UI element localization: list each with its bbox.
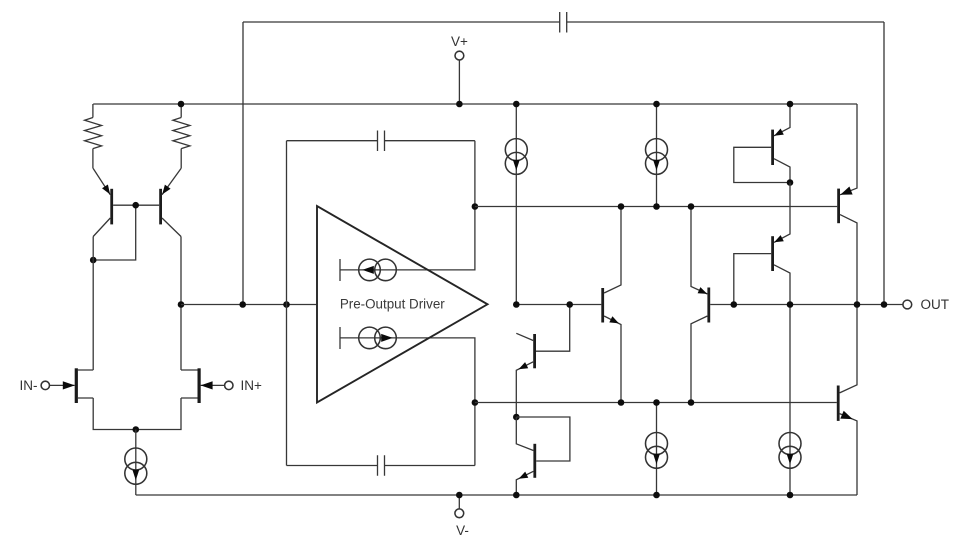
capacitor C1 (top compensation): [243, 12, 884, 33]
transistor Q1 (PNP current-mirror, diode-connected): [93, 169, 112, 237]
node left rail junction: [90, 257, 97, 264]
capacitor C3 (box bottom): [287, 455, 475, 476]
svg-text:V-: V-: [456, 523, 469, 538]
node Q7 collector tap: [618, 203, 625, 210]
current source I3 (lower, in driver): [340, 327, 396, 349]
transistor Q8 (PNP driver): [691, 207, 709, 403]
wire right rail: [180, 237, 182, 371]
node V+ terminal: [455, 51, 464, 104]
wire upper node row: [475, 206, 837, 208]
transistor Q11 (PNP output, upper): [839, 104, 857, 305]
transistor J1 (input JFET, IN-): [50, 368, 94, 403]
current source I7 (lower right): [779, 305, 801, 496]
resistor R1: [85, 104, 102, 169]
transistor Q12 (NPN output, lower): [838, 305, 857, 496]
svg-text:IN+: IN+: [241, 378, 263, 393]
current source I4 (upper left): [505, 104, 527, 305]
current source I5 (upper middle): [646, 104, 668, 207]
wire Q1-Q2 base tie: [113, 204, 159, 206]
wire lower node row: [475, 402, 837, 404]
wire left rail: [92, 237, 94, 371]
transistor Q9 (PNP diode, upper right): [734, 104, 790, 183]
node Q9 bus tap: [787, 101, 794, 108]
node I5 bus tap: [653, 101, 660, 108]
wire output node row: [710, 304, 903, 306]
node tail junction: [133, 426, 140, 433]
node Q8 collector tap: [688, 399, 695, 406]
node OUT terminal: [903, 300, 912, 309]
node V- stub tap: [456, 492, 463, 499]
transistor Q10 (PNP diode): [734, 183, 790, 305]
wire bias link row: [516, 304, 601, 306]
wire driver box right lower: [340, 338, 475, 466]
node compensation OUT tap: [881, 301, 888, 308]
wire C1 right leg down to OUT node: [883, 22, 885, 305]
node base link junction: [132, 202, 139, 209]
svg-text:IN-: IN-: [20, 378, 38, 393]
node Q5 base tap: [566, 301, 573, 308]
wire J1 source to tail: [93, 398, 181, 430]
node V- terminal: [455, 495, 464, 518]
node IN- terminal: [41, 381, 49, 389]
wire V+ bus: [93, 103, 857, 105]
node Q7 emitter tap: [618, 399, 625, 406]
svg-text:V+: V+: [451, 34, 468, 49]
node Q10 collector tap: [787, 301, 794, 308]
transistor Q6 (NPN bias diode): [516, 417, 570, 495]
current source I1 (input tail): [125, 430, 147, 496]
node Q6 emitter rail tap: [513, 492, 520, 499]
wire V- rail: [136, 494, 857, 496]
wire C1 left leg down to input node: [242, 22, 244, 305]
node R2 bus tap: [178, 101, 185, 108]
current source I6 (lower middle): [646, 403, 668, 496]
transistor Q7 (NPN driver): [603, 207, 621, 403]
node box upper tap: [472, 203, 479, 210]
current source I2 (upper, in driver): [340, 259, 396, 281]
wire driver box right upper: [340, 141, 475, 270]
op-amp U1 (Pre-Output Driver triangle): [317, 206, 488, 403]
capacitor C2 (box top): [287, 131, 475, 152]
node I6 row tap: [653, 399, 660, 406]
node box lower tap: [472, 399, 479, 406]
node I4 bus tap: [513, 101, 520, 108]
transistor J2 (input JFET, IN+): [181, 368, 225, 403]
node OUT junction Q11-Q12: [854, 301, 861, 308]
node Q9-Q10 junction: [787, 179, 794, 186]
svg-text:Pre-Output Driver: Pre-Output Driver: [340, 296, 445, 311]
node V+ stub tap: [456, 101, 463, 108]
node compensation tap: [239, 301, 246, 308]
node Q5-Q6 junction: [513, 414, 520, 421]
wire driver box left edge: [286, 141, 288, 466]
node Q8 emitter tap: [688, 203, 695, 210]
transistor Q5 (NPN bias diode): [516, 305, 569, 418]
wire base-to-collector link: [93, 205, 136, 260]
node IN+ terminal: [225, 381, 233, 389]
resistor R2: [173, 104, 190, 169]
node Q10 base tap: [731, 301, 738, 308]
node I6 rail tap: [653, 492, 660, 499]
node driver box left edge junction: [283, 301, 290, 308]
wire first-stage output to driver input: [181, 304, 316, 306]
node Q5 collector tap: [513, 301, 520, 308]
node right rail to driver input: [178, 301, 185, 308]
node I7 rail tap: [787, 492, 794, 499]
svg-text:OUT: OUT: [921, 297, 950, 312]
transistor Q2 (PNP current-mirror output): [161, 169, 181, 237]
node I5 row tap: [653, 203, 660, 210]
